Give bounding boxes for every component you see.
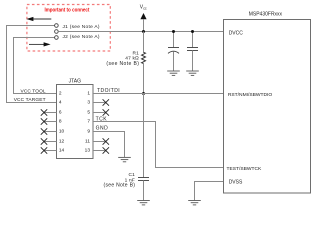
svg-text:(see Note B): (see Note B) <box>106 61 139 67</box>
X pin 14 <box>41 147 47 153</box>
label C1 1 nF (see Note B) <box>104 172 136 189</box>
jumper J1 pin circle top <box>55 24 59 28</box>
node RST junction <box>142 92 145 95</box>
svg-text:1: 1 <box>87 91 90 97</box>
wire Vcc to R1 <box>143 32 145 53</box>
bypass capacitor 1 (polarized) <box>168 32 179 72</box>
no-connect stub pin 10 <box>45 131 57 133</box>
X pin 6 <box>41 109 47 115</box>
ground (cap1) <box>167 71 180 75</box>
node cap1 junction <box>172 30 175 33</box>
X pin 13 <box>103 147 109 153</box>
svg-text:5: 5 <box>87 110 90 116</box>
svg-text:cc: cc <box>143 7 147 11</box>
ground (DVSS) <box>188 201 201 205</box>
jumper J2 pin circle bottom <box>55 36 59 40</box>
svg-text:(see Note B): (see Note B) <box>104 183 136 189</box>
red dashed important-to-connect box <box>27 5 110 52</box>
svg-text:VCC TARGET: VCC TARGET <box>14 97 46 103</box>
wire TCK pin7 to TEST/SBWTCK <box>93 122 224 168</box>
wire RST node to C1 <box>143 94 145 178</box>
wire VCC TOOL rail to J2 <box>14 38 57 94</box>
svg-text:RST/NMI/SBWTDIO: RST/NMI/SBWTDIO <box>228 92 272 98</box>
svg-text:MSP430FRxxx: MSP430FRxxx <box>249 12 283 18</box>
no-connect stub pin 8 <box>45 121 57 123</box>
svg-text:TEST/SBWTCK: TEST/SBWTCK <box>227 166 263 172</box>
svg-text:9: 9 <box>87 129 90 135</box>
wire DVSS to ground <box>195 182 224 201</box>
svg-text:VCC TOOL: VCC TOOL <box>21 88 46 94</box>
wire C1 to ground <box>143 181 145 201</box>
svg-text:TCK: TCK <box>96 116 108 122</box>
no-connect stub pin 5 <box>93 112 106 114</box>
wire R1 to RST node <box>143 63 145 93</box>
bypass capacitor 2 <box>187 32 198 72</box>
X pin 11 <box>103 138 109 144</box>
svg-text:11: 11 <box>85 139 90 145</box>
svg-text:DVSS: DVSS <box>229 179 243 185</box>
svg-text:J2 (see Note A): J2 (see Note A) <box>63 34 100 40</box>
svg-text:JTAG: JTAG <box>69 79 82 85</box>
no-connect stub pin 14 <box>45 150 57 152</box>
node cap2 junction <box>191 30 194 33</box>
MSP430 box U1 <box>224 20 311 194</box>
svg-text:2: 2 <box>59 91 62 97</box>
svg-text:10: 10 <box>59 129 65 135</box>
Vcc supply symbol <box>140 4 147 31</box>
ground (JTAG GND) <box>118 157 131 161</box>
no-connect stub pin 11 <box>93 141 106 143</box>
svg-text:14: 14 <box>59 148 65 154</box>
ground (C1) <box>137 201 150 205</box>
wire VCC TARGET rail to J1 <box>7 26 57 103</box>
X pin 8 <box>41 118 47 124</box>
wire GND pin9 to ground <box>93 132 125 158</box>
label R1 47 kOhm (see Note B) <box>106 50 139 67</box>
svg-text:3: 3 <box>87 100 90 106</box>
svg-text:13: 13 <box>85 148 91 154</box>
pin numbers right column <box>85 91 91 154</box>
resistor R1 <box>142 52 146 63</box>
no-connect stub pin 13 <box>93 150 106 152</box>
X pin 5 <box>103 109 109 115</box>
no-connect stub pin 12 <box>45 141 57 143</box>
node Vcc rail junction <box>142 30 145 33</box>
svg-text:Important to connect: Important to connect <box>45 7 90 14</box>
svg-text:GND: GND <box>96 125 109 131</box>
svg-text:8: 8 <box>59 119 62 125</box>
JTAG connector box <box>57 85 94 159</box>
svg-text:7: 7 <box>87 119 90 125</box>
arrow (right, toward target) <box>29 42 51 46</box>
X pin 3 <box>103 99 109 105</box>
X pin 12 <box>41 138 47 144</box>
ground (cap2) <box>186 71 199 75</box>
svg-text:4: 4 <box>59 100 62 106</box>
no-connect stub pin 6 <box>45 112 57 114</box>
wire TDO/TDI pin1 to RST/NMI/SBWTDIO <box>93 93 224 95</box>
svg-text:DVCC: DVCC <box>229 31 244 37</box>
svg-text:TDO/TDI: TDO/TDI <box>97 88 120 94</box>
X pin 10 <box>41 128 47 134</box>
svg-text:R1: R1 <box>132 50 139 56</box>
svg-text:C1: C1 <box>128 172 135 178</box>
wire Vcc rail from jumper to DVCC <box>58 31 223 33</box>
jumper common pin circle (Vcc rail) <box>55 30 59 34</box>
pin numbers left column <box>59 91 65 154</box>
svg-text:J1 (see Note A): J1 (see Note A) <box>63 24 100 30</box>
arrow (left, toward tool) <box>26 17 51 21</box>
no-connect stub pin 3 <box>93 102 106 104</box>
capacitor C1 <box>138 178 149 181</box>
svg-text:12: 12 <box>59 139 65 145</box>
svg-text:6: 6 <box>59 110 62 116</box>
